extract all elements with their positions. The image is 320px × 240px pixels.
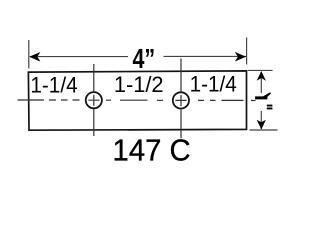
1-inch dimension up arrowhead	[257, 71, 266, 81]
4-inch dimension right arrowhead	[235, 52, 246, 62]
svg-text:4”: 4”	[132, 45, 155, 75]
svg-text:147 C: 147 C	[113, 134, 191, 168]
4-inch dimension: left extension line	[28, 40, 30, 69]
part outline (bar plate)	[28, 71, 246, 130]
hole H2 center cross	[175, 95, 186, 106]
svg-text:1-1/2: 1-1/2	[114, 72, 164, 97]
1-inch dimension down arrowhead	[257, 120, 266, 130]
hole H2	[173, 92, 189, 108]
hole H1 center cross	[88, 95, 99, 106]
1-inch dimension: top extension line	[248, 69, 273, 71]
4-inch dimension line	[30, 55, 246, 57]
hole H1 vertical centerline	[93, 64, 95, 136]
1-inch dimension line	[260, 72, 262, 129]
hole H2 vertical centerline	[180, 59, 182, 139]
svg-text:1-1/4: 1-1/4	[190, 71, 237, 97]
1-inch dimension text (rotated)	[255, 92, 271, 99]
horizontal centerline (dashed)	[18, 99, 256, 102]
4-inch dimension left arrowhead	[29, 52, 40, 62]
svg-text:1-1/4: 1-1/4	[30, 72, 77, 98]
hole H1	[86, 92, 102, 108]
4-inch dimension: right extension line	[246, 38, 248, 65]
1-inch dimension: bottom extension line	[250, 129, 278, 131]
